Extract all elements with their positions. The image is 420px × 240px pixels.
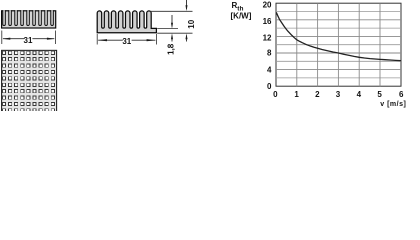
dimension 31 (left view) arrowheads [2,38,55,40]
Rth vs v curve [276,12,401,60]
dimension 31 (left view) extension lines [2,31,56,45]
chart vertical gridlines [297,3,380,86]
svg-text:6: 6 [399,90,404,99]
saw slots in side view [3,10,53,25]
svg-text:10: 10 [187,19,196,28]
svg-text:5: 5 [377,90,382,99]
svg-text:16: 16 [263,17,272,26]
dimension 31 (middle) extension+dim lines [97,34,156,45]
svg-text:31: 31 [24,36,33,45]
svg-text:1: 1 [294,90,299,99]
svg-text:8: 8 [267,49,272,58]
extension line fin top (for 10) [150,10,193,12]
svg-text:0: 0 [267,82,272,91]
chart horizontal major gridlines [276,20,401,70]
svg-text:12: 12 [263,34,272,43]
heatsink side view (crosscut slots) [2,11,56,28]
pin grid in top view [2,51,54,112]
svg-text:31: 31 [122,37,131,46]
svg-text:v [m/s]: v [m/s] [380,101,406,108]
x axis tick labels [273,90,404,99]
svg-text:20: 20 [263,0,272,9]
dimension 1,8 vertical arrows [171,15,173,42]
svg-text:2: 2 [315,90,320,99]
dimension 31 (middle) arrowheads [98,39,156,41]
svg-text:[K/W]: [K/W] [231,11,252,20]
svg-text:1,8: 1,8 [166,43,175,55]
extension line base bottom (for 10 and 1,8) [157,32,192,34]
svg-text:4: 4 [267,66,272,75]
heatsink top view square [2,50,57,112]
svg-text:3: 3 [336,90,341,99]
y axis tick labels [263,0,272,91]
heatsink profile cross-section (middle) [97,11,156,33]
extension line base top (for 1,8) [157,28,178,30]
svg-text:4: 4 [357,90,362,99]
chart horizontal minor gridlines [276,12,401,78]
svg-text:0: 0 [273,90,278,99]
chart plot area [276,3,401,86]
dimension 10 vertical arrows [186,0,188,42]
